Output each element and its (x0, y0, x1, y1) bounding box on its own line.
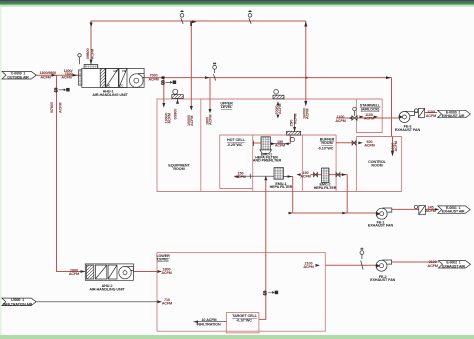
arrow into FE-3 (399, 115, 403, 119)
arrow down at header corner (90, 23, 93, 28)
left green edge (0, 6, 1, 335)
main drop to control room wire (391, 78, 393, 137)
damper FE-3 outlet (415, 108, 425, 117)
EMC-1 damper riser wire (289, 135, 291, 144)
svg-text:HEPA FILTER: HEPA FILTER (314, 186, 337, 190)
motorized damper upper-level x277 (273, 90, 284, 99)
EMC-2 drop wire (346, 175, 348, 213)
valve stairwell inlet (352, 111, 357, 120)
HEPA filter EMU-1 (274, 168, 283, 180)
HEPA filter EMC-2 (322, 168, 330, 183)
bottom green bar (0, 335, 474, 339)
svg-text:ACFM: ACFM (300, 175, 310, 179)
branch riser x191 wire (190, 22, 192, 107)
svg-text:HOT CELL: HOT CELL (227, 138, 246, 142)
svg-text:ACFM: ACFM (91, 49, 95, 59)
arrow up damper stub x177 (176, 99, 179, 103)
svg-text:ACFM: ACFM (303, 265, 313, 269)
svg-text:EXHAUST FAN: EXHAUST FAN (368, 224, 394, 228)
junction supply (162, 76, 165, 79)
HEPA filter EMC-1 with prefilter (260, 137, 272, 154)
svg-text:ACFM: ACFM (425, 209, 435, 213)
junction riser-supply dot (305, 77, 307, 79)
svg-text:ACFM: ACFM (428, 264, 438, 268)
svg-text:ROOM: ROOM (371, 163, 382, 167)
svg-text:ACFM: ACFM (235, 175, 245, 179)
damper on top header x250 (248, 12, 252, 24)
EMU-1 inlet wire (234, 175, 274, 177)
arrow into AHU-1 (73, 74, 78, 77)
EMC-2 line through buffer wire (311, 174, 348, 176)
arrow left EMC-1 riser (284, 142, 288, 145)
arrow left stairwell feed (348, 117, 352, 120)
arrow left infiltration (194, 320, 199, 323)
EMU-1 outlet wire (283, 176, 292, 178)
svg-text:HEPA FILTER: HEPA FILTER (270, 185, 293, 189)
svg-text:-0.10"WC: -0.10"WC (236, 318, 252, 322)
smoke damper S at supply (161, 81, 176, 87)
arrow on supply before damper (205, 76, 210, 79)
arrow into FE-1 (376, 212, 380, 216)
arrow down drop x210 (209, 109, 212, 114)
valve buffer-control (352, 141, 356, 145)
damper FE-1 outlet (414, 205, 425, 214)
infiltration supply wire (36, 301, 158, 303)
EMU-1 drop to fan header wire (292, 177, 294, 214)
arrow down riser bottom (304, 101, 307, 107)
motorized damper equipment room (172, 89, 184, 103)
return damper actuator AHU-1 (78, 54, 81, 65)
svg-text:HC: HC (107, 84, 111, 87)
valve EMC-2 inlet (314, 173, 318, 177)
return air top header wire (91, 21, 306, 65)
svg-text:ACFM: ACFM (58, 103, 62, 113)
AHU-2 air-handling unit (85, 264, 133, 280)
flag infiltration air (2, 298, 36, 306)
target cell duct wire (259, 177, 266, 320)
stairwell box (356, 99, 382, 133)
arrow up at riser top (304, 22, 307, 27)
svg-text:ACFM: ACFM (69, 272, 79, 276)
arrow lower level out (316, 264, 321, 267)
svg-text:U: U (249, 9, 251, 13)
FE-3 outlet wire (414, 112, 438, 114)
valve EMC-2 outlet (336, 173, 340, 177)
arrow down stub x191 (190, 106, 193, 111)
arrow left in stairwell (360, 116, 364, 119)
svg-text:10 ACFM: 10 ACFM (201, 318, 216, 322)
arrow right EMC-1 outlet (271, 142, 276, 145)
target cell box (226, 313, 259, 333)
hot cell block box (220, 135, 336, 192)
arrow into E-0001 flag (435, 208, 440, 211)
svg-text:ACFM: ACFM (293, 114, 297, 124)
svg-text:ROOM: ROOM (173, 167, 184, 171)
control room box (356, 137, 401, 192)
svg-text:ACFM: ACFM (168, 113, 172, 123)
arrow left EMU-1 inlet (234, 175, 239, 178)
svg-text:0/3800: 0/3800 (174, 109, 178, 120)
flag E-0001 exhaust air (438, 206, 470, 213)
svg-text:EXHAUST AIR: EXHAUST AIR (442, 114, 465, 118)
svg-text:AIR-HANDLING UNIT: AIR-HANDLING UNIT (92, 93, 128, 97)
svg-text:AND PREFILTER: AND PREFILTER (253, 159, 282, 163)
exhaust fan FE-2 (376, 260, 392, 271)
buffer room box (302, 135, 336, 192)
svg-text:INFILTRATION: INFILTRATION (196, 323, 221, 327)
room band bottom wire (157, 191, 402, 193)
arrow down control drop (391, 151, 394, 157)
svg-text:(AIRLOCK): (AIRLOCK) (361, 107, 380, 111)
top window bar (0, 0, 474, 2)
svg-text:OUTSIDE AIR: OUTSIDE AIR (7, 75, 29, 79)
svg-text:EXHAUST FAN: EXHAUST FAN (370, 278, 396, 282)
svg-text:1300/9800: 1300/9800 (39, 71, 56, 75)
svg-text:ACFM: ACFM (364, 143, 374, 147)
stairwell exhaust wire (336, 117, 398, 119)
arrow right EMU-1 outlet (288, 175, 293, 178)
svg-text:ACFM: ACFM (61, 75, 71, 79)
hot cell wall tick EMC-1 (253, 141, 255, 146)
EMC-1 outlet wire (270, 143, 290, 145)
svg-text:ACFM: ACFM (364, 116, 374, 120)
svg-text:LEVEL: LEVEL (221, 105, 233, 109)
arrow down supply drop x164 (162, 103, 165, 108)
flag E-0000 exhaust air (438, 110, 471, 117)
svg-text:ACFM: ACFM (335, 119, 345, 123)
svg-text:-0.10"WC: -0.10"WC (318, 146, 334, 150)
EMC-1 inlet wire (253, 142, 261, 144)
svg-text:LEVEL: LEVEL (157, 258, 169, 262)
svg-text:U: U (361, 246, 363, 250)
supply drop x210 wire (209, 78, 211, 109)
smoke damper S at target cell (263, 291, 278, 297)
svg-text:S: S (54, 88, 58, 94)
damper on FE-2 inlet (360, 249, 364, 270)
svg-text:ACFM: ACFM (275, 144, 285, 148)
riser to top header wire (305, 21, 307, 103)
svg-text:ACFM: ACFM (306, 109, 310, 119)
equipment room box (157, 99, 201, 192)
svg-text:ACFM: ACFM (190, 116, 194, 126)
svg-text:ACFM: ACFM (426, 114, 436, 118)
svg-text:EXHAUST FAN: EXHAUST FAN (395, 128, 421, 132)
flag outside air (2, 71, 36, 79)
exhaust fan FE-1 (376, 208, 392, 219)
svg-text:U: U (214, 61, 216, 65)
svg-text:AIR-HANDLING UNIT: AIR-HANDLING UNIT (89, 287, 125, 291)
svg-text:CC: CC (120, 84, 124, 87)
svg-text:EXHAUST AIR: EXHAUST AIR (442, 210, 465, 214)
arrow at supply corner (386, 76, 391, 79)
arrow into lower level room (158, 270, 163, 273)
svg-text:INFILTRATION AIR: INFILTRATION AIR (3, 302, 33, 306)
svg-text:ROOM: ROOM (321, 141, 332, 145)
arrow right into control room (358, 142, 363, 145)
arrow down into damper box (293, 127, 296, 131)
FE-2 outlet wire (392, 261, 439, 263)
arrow supply 710 into room (158, 300, 163, 303)
arrow down stub x277 (276, 115, 279, 119)
svg-text:U: U (181, 9, 183, 13)
svg-text:ACFM: ACFM (161, 271, 171, 275)
exhaust fan FE-3 (399, 111, 415, 122)
svg-text:ACFM: ACFM (278, 104, 282, 114)
svg-text:ACFM: ACFM (209, 115, 213, 125)
svg-text:0/9800: 0/9800 (86, 48, 90, 59)
supply drop x164 wire (163, 78, 165, 104)
arrow up target cell junction (264, 176, 267, 180)
FE-1 suction header wire (293, 212, 377, 214)
svg-text:ACFM: ACFM (162, 301, 172, 305)
infiltration line wire (194, 321, 227, 323)
arrow up damper stub x277 (276, 101, 279, 105)
arrow into FE-2 (376, 264, 380, 268)
AHU-1 supply header wire (144, 77, 391, 79)
lower level room box (157, 253, 325, 332)
svg-text:TARGET CELL: TARGET CELL (232, 314, 257, 318)
svg-text:ACFM: ACFM (394, 141, 398, 151)
flag E-0002 exhaust air (438, 261, 470, 268)
elbow arrow at x191 header (190, 20, 196, 26)
svg-text:ACFM: ACFM (40, 75, 50, 79)
svg-text:0/7800: 0/7800 (50, 102, 54, 113)
valve actuator stairwell (353, 107, 357, 111)
motorized damper hot-cell band (286, 115, 300, 142)
svg-text:-0.25"WC: -0.25"WC (227, 143, 243, 147)
AHU-1 air-handling unit (79, 65, 145, 88)
buffer to control wire (336, 142, 356, 144)
control room drop wire (392, 137, 394, 152)
arrow right EMC-2 outlet (342, 173, 347, 176)
svg-text:S: S (161, 81, 165, 87)
arrow into AHU-1 inlet junction (52, 74, 57, 77)
outside air inlet wire (36, 74, 81, 76)
upper level band top wire (201, 98, 382, 100)
AHU-2 supply wire (133, 271, 157, 273)
arrow right at FE-1 junction (342, 212, 347, 215)
damper on top header x182 (180, 12, 184, 24)
svg-text:S: S (263, 291, 267, 297)
svg-text:EXHAUST AIR: EXHAUST AIR (442, 264, 465, 268)
lower level exhaust wire (325, 264, 376, 266)
arrow right in stairwell (374, 116, 378, 119)
arrow down into AHU-1 louver (90, 60, 93, 65)
junction tick EMU-1 (249, 174, 251, 179)
smoke damper S at AHU-1 inlet (54, 88, 69, 94)
damper on supply header x214 (213, 64, 217, 81)
arrow into AHU-2 (81, 270, 86, 273)
svg-text:ACFM: ACFM (148, 77, 158, 81)
FE-1 outlet wire (391, 208, 437, 210)
arrow left buffer inlet (296, 173, 300, 176)
arrow right at FE-1 elbow (289, 212, 294, 215)
return duct down-left wire (57, 75, 86, 271)
